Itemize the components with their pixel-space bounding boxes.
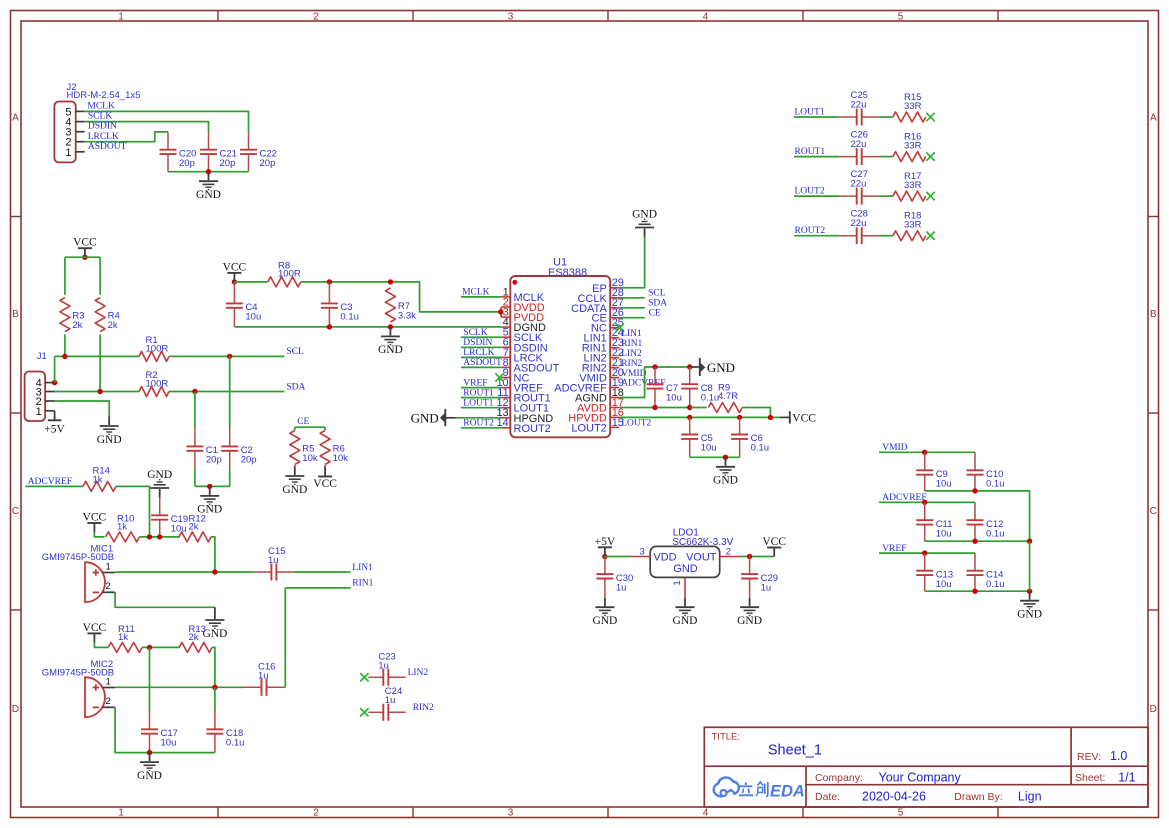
- wire: [879, 116, 893, 118]
- wire: [739, 556, 774, 558]
- svg-text:0.1u: 0.1u: [986, 579, 1005, 590]
- svg-text:10k: 10k: [333, 453, 349, 464]
- ground: [196, 172, 221, 201]
- svg-text:Lign: Lign: [1018, 789, 1042, 803]
- svg-text:1: 1: [118, 11, 124, 22]
- junction: [212, 569, 217, 574]
- svg-text:GND: GND: [713, 475, 738, 487]
- svg-text:RIN2: RIN2: [621, 359, 642, 369]
- junction: [388, 324, 393, 329]
- svg-text:GND: GND: [707, 360, 735, 375]
- wire: [974, 451, 976, 453]
- wire: [619, 367, 689, 398]
- wire: [879, 195, 893, 197]
- svg-text:0.1u: 0.1u: [226, 738, 245, 749]
- resistor R13 2k: [179, 624, 212, 652]
- junction at J1 pin 4: [52, 380, 57, 385]
- capacitor C18 0.1u: [206, 712, 244, 753]
- capacitor C3 0.1u: [321, 282, 359, 327]
- svg-text:GND: GND: [378, 344, 403, 356]
- junction: [1027, 539, 1032, 544]
- svg-text:Date:: Date:: [815, 791, 840, 803]
- lead R5 to ground: [294, 465, 296, 467]
- U1 pin 13 HPGND: [496, 407, 553, 425]
- svg-text:LIN1: LIN1: [352, 563, 373, 573]
- junction: [922, 500, 927, 505]
- svg-text:GND: GND: [97, 434, 122, 446]
- connector J1: [25, 351, 55, 421]
- wire: [55, 401, 110, 417]
- svg-text:VCC: VCC: [83, 622, 107, 634]
- svg-text:4: 4: [703, 807, 709, 818]
- svg-text:ES8388: ES8388: [548, 267, 587, 279]
- resistor R5 10k: [290, 431, 318, 465]
- wire: [149, 647, 151, 711]
- svg-text:2: 2: [106, 581, 111, 592]
- svg-text:1u: 1u: [258, 670, 269, 681]
- junction: [922, 450, 927, 455]
- svg-text:1: 1: [36, 406, 42, 418]
- svg-text:2: 2: [313, 807, 319, 818]
- svg-text:22u: 22u: [851, 218, 867, 229]
- U1 pin 4 DGND: [501, 317, 546, 335]
- wire: [295, 426, 325, 428]
- wire: [85, 111, 249, 131]
- capacitor C1 20p: [186, 429, 221, 469]
- svg-text:4: 4: [703, 11, 709, 22]
- wire: [284, 588, 286, 687]
- svg-text:1.0: 1.0: [1110, 749, 1127, 763]
- capacitor C25 22u: [839, 90, 879, 126]
- wire: [294, 571, 351, 573]
- svg-text:RIN2: RIN2: [413, 703, 434, 713]
- wire: [605, 556, 630, 558]
- svg-text:LIN2: LIN2: [621, 349, 642, 359]
- svg-text:VCC: VCC: [83, 512, 107, 524]
- junction: [687, 364, 692, 369]
- wire: [169, 355, 284, 357]
- power flag VCC: [83, 622, 107, 643]
- junction: [972, 539, 977, 544]
- junction: [212, 685, 217, 690]
- capacitor C5 10u: [681, 417, 716, 457]
- wire: [229, 469, 231, 487]
- svg-text:EDA: EDA: [770, 783, 805, 801]
- svg-text:GND: GND: [202, 628, 227, 640]
- capacitor C26 22u: [839, 130, 879, 166]
- svg-text:Sheet_1: Sheet_1: [768, 743, 822, 759]
- capacitor C4 10u: [226, 282, 261, 327]
- svg-text:ROUT2: ROUT2: [514, 423, 551, 435]
- svg-text:VCC: VCC: [792, 413, 816, 425]
- U1 pin 18 AGND: [575, 387, 624, 405]
- resistor R2 100R: [139, 370, 169, 397]
- svg-text:RIN1: RIN1: [621, 339, 642, 349]
- junction: [768, 415, 773, 420]
- ground: [282, 467, 307, 496]
- svg-text:LOUT2: LOUT2: [795, 187, 825, 197]
- junction: [192, 389, 197, 394]
- junction: [327, 324, 332, 329]
- connector J2 HDR-M-2.54_1x5: [54, 82, 140, 162]
- resistor R10 1k: [106, 514, 140, 542]
- U1 pin 24 LIN1: [584, 327, 624, 345]
- capacitor C9 10u: [916, 452, 951, 491]
- U1 pin 21 RIN2: [582, 357, 624, 375]
- ground (inverted): [632, 209, 657, 238]
- svg-text:+5V: +5V: [44, 423, 65, 435]
- svg-text:GND: GND: [737, 615, 762, 627]
- junction: [972, 589, 977, 594]
- LCEDA logo: [714, 777, 805, 800]
- capacitor C8 0.1u: [681, 367, 719, 408]
- svg-text:0.1u: 0.1u: [340, 312, 359, 323]
- svg-text:SCL: SCL: [648, 289, 666, 299]
- svg-text:ASDOUT: ASDOUT: [88, 142, 127, 152]
- U1 pin 26 CE: [592, 307, 624, 325]
- wire: [461, 387, 501, 389]
- wire: [169, 391, 284, 393]
- svg-text:5: 5: [898, 11, 904, 22]
- junction: [97, 389, 102, 394]
- resistor R14 1k: [83, 465, 116, 491]
- wire: [142, 646, 180, 648]
- junction: [227, 354, 232, 359]
- svg-text:22u: 22u: [851, 100, 867, 111]
- svg-text:GND: GND: [147, 469, 172, 481]
- svg-text:2k: 2k: [72, 320, 82, 331]
- capacitor C24 1u: [368, 686, 405, 721]
- svg-text:EP: EP: [592, 283, 607, 295]
- svg-text:20p: 20p: [179, 158, 195, 169]
- power flag VCC: [83, 512, 107, 533]
- wire: [619, 297, 645, 299]
- svg-text:2k: 2k: [108, 320, 118, 331]
- capacitor C20 20p: [160, 132, 197, 172]
- wire: [794, 195, 839, 197]
- ground: [1017, 591, 1042, 620]
- U1 pin 25 NC: [591, 317, 624, 335]
- svg-text:1u: 1u: [378, 660, 389, 671]
- svg-text:4.7R: 4.7R: [718, 391, 738, 402]
- ground: [202, 611, 227, 640]
- svg-text:B: B: [12, 309, 19, 320]
- wire: [461, 427, 501, 429]
- U1 pin 12 LOUT1: [496, 397, 549, 415]
- svg-text:LIN2: LIN2: [408, 668, 429, 678]
- wire: [619, 317, 645, 319]
- svg-text:GND: GND: [632, 209, 657, 221]
- wire: [234, 326, 501, 328]
- wire: [99, 257, 101, 295]
- svg-text:GND: GND: [673, 615, 698, 627]
- wire: [301, 282, 500, 312]
- svg-text:SCLK: SCLK: [88, 112, 112, 122]
- wire: [99, 334, 101, 391]
- svg-text:GND: GND: [196, 189, 221, 201]
- svg-text:0.1u: 0.1u: [701, 392, 720, 403]
- svg-text:3: 3: [508, 807, 514, 818]
- svg-text:1u: 1u: [761, 582, 772, 593]
- svg-text:1: 1: [118, 807, 124, 818]
- svg-text:DSDIN: DSDIN: [88, 122, 117, 132]
- ground: [673, 598, 698, 627]
- wire: [212, 647, 215, 687]
- svg-text:VCC: VCC: [313, 478, 337, 490]
- resistor R16 33R: [893, 132, 926, 162]
- wire: [619, 416, 779, 418]
- wire: [1029, 541, 1031, 591]
- wire: [94, 532, 104, 537]
- svg-text:0.1u: 0.1u: [986, 528, 1005, 539]
- svg-text:1u: 1u: [385, 695, 396, 706]
- wire: [879, 156, 893, 158]
- wire: [324, 427, 326, 430]
- wire: [55, 391, 140, 393]
- svg-text:Your Company: Your Company: [879, 771, 962, 785]
- power flag VCC: [73, 237, 97, 258]
- wire: [794, 156, 839, 158]
- wire: [115, 686, 244, 688]
- svg-text:ROUT1: ROUT1: [795, 147, 826, 157]
- svg-text:10u: 10u: [161, 738, 177, 749]
- capacitor C12 0.1u: [967, 502, 1005, 541]
- wire: [925, 491, 1030, 541]
- ground: [378, 327, 403, 356]
- svg-text:Company:: Company:: [815, 772, 863, 784]
- resistor R17 33R: [893, 171, 926, 201]
- wire: [115, 707, 215, 752]
- svg-text:10u: 10u: [701, 443, 717, 454]
- junction at U1 pins 2/3: [498, 309, 503, 314]
- wire: [619, 307, 645, 309]
- U1 pin 20 VMID: [579, 367, 624, 385]
- wire: [65, 256, 100, 258]
- wire: [194, 469, 196, 487]
- power flag VCC: [762, 536, 786, 557]
- title block: [704, 727, 1148, 807]
- svg-text:3.3k: 3.3k: [398, 311, 416, 322]
- svg-text:GMI9745P-50DB: GMI9745P-50DB: [42, 552, 114, 563]
- junction: [82, 255, 87, 260]
- svg-text:1k: 1k: [117, 522, 127, 533]
- wire: [461, 346, 501, 348]
- svg-text:1: 1: [672, 580, 683, 585]
- svg-text:1k: 1k: [93, 474, 103, 485]
- svg-text:VMID: VMID: [621, 369, 646, 379]
- svg-text:GND: GND: [592, 615, 617, 627]
- junction: [206, 169, 211, 174]
- wire: [168, 171, 249, 173]
- U1 pin 1 MCLK: [501, 286, 545, 304]
- svg-text:LIN1: LIN1: [621, 329, 642, 339]
- wire: [195, 485, 230, 487]
- capacitor C15 1u: [254, 546, 294, 580]
- power flag VCC (right of R9): [780, 411, 817, 424]
- junction: [62, 354, 67, 359]
- wire: [691, 407, 707, 409]
- no-connect flag: [926, 232, 934, 240]
- wire: [284, 686, 285, 688]
- resistor R1 100R: [139, 335, 169, 362]
- junction: [327, 279, 332, 284]
- ground: [737, 598, 762, 627]
- svg-text:3: 3: [508, 11, 514, 22]
- resistor R7 3.3k: [385, 288, 416, 322]
- wire: [64, 257, 66, 295]
- capacitor C6 0.1u: [731, 417, 769, 457]
- junction: [652, 364, 657, 369]
- wire: [794, 235, 839, 237]
- power flag VCC (inverted): [313, 467, 337, 491]
- capacitor C23 1u: [368, 651, 405, 685]
- svg-text:10u: 10u: [171, 524, 187, 535]
- resistor R6 10k: [320, 431, 348, 465]
- U1 pin 29 EP: [592, 277, 624, 295]
- svg-text:A: A: [12, 113, 19, 124]
- U1 pin 22 LIN2: [584, 347, 624, 365]
- U1 pin 17 AVDD: [577, 397, 624, 415]
- ground: [592, 598, 617, 627]
- wire: [94, 642, 108, 647]
- svg-text:1: 1: [106, 561, 111, 572]
- svg-text:RIN1: RIN1: [352, 579, 373, 589]
- wire: [115, 571, 254, 573]
- capacitor C27 22u: [839, 169, 879, 205]
- svg-text:33R: 33R: [904, 220, 922, 231]
- svg-text:HDR-M-2.54_1x5: HDR-M-2.54_1x5: [67, 90, 141, 101]
- svg-text:VCC: VCC: [223, 261, 247, 273]
- junction: [157, 534, 162, 539]
- no-connect flag: [926, 192, 934, 200]
- wire: [234, 281, 267, 283]
- svg-text:GND: GND: [1017, 609, 1042, 621]
- junction: [723, 455, 728, 460]
- ground: [97, 417, 122, 446]
- svg-text:C: C: [12, 506, 19, 517]
- svg-text:+5V: +5V: [595, 536, 616, 548]
- svg-text:10u: 10u: [936, 579, 952, 590]
- wire: [294, 427, 296, 430]
- resistor R9 4.7R: [708, 383, 742, 413]
- resistor R18 33R: [893, 211, 926, 241]
- svg-text:VCC: VCC: [73, 237, 97, 249]
- svg-text:10u: 10u: [936, 528, 952, 539]
- svg-text:B: B: [1150, 309, 1157, 320]
- svg-text:VOUT: VOUT: [686, 551, 717, 563]
- U1 pin 6 DSDIN: [501, 337, 548, 355]
- svg-text:LOUT1: LOUT1: [795, 107, 825, 117]
- wire: [285, 587, 350, 589]
- svg-text:LRCLK: LRCLK: [88, 132, 119, 142]
- svg-text:ROUT2: ROUT2: [795, 226, 826, 236]
- junction pins 2-3: [500, 307, 502, 317]
- svg-text:0.1u: 0.1u: [751, 443, 770, 454]
- wire: [64, 334, 66, 356]
- lead C30 to ground: [604, 596, 606, 597]
- svg-text:100R: 100R: [278, 268, 301, 279]
- wire: [140, 536, 181, 538]
- capacitor C7 10u: [647, 367, 682, 408]
- capacitor C28 22u: [839, 209, 879, 245]
- junction: [207, 484, 212, 489]
- resistor R4 2k: [95, 298, 120, 332]
- wire: [461, 356, 501, 358]
- junction: [687, 405, 692, 410]
- capacitor C22 20p: [240, 132, 277, 172]
- svg-text:1: 1: [65, 147, 71, 159]
- svg-text:22u: 22u: [851, 139, 867, 150]
- svg-text:MCLK: MCLK: [87, 101, 115, 111]
- U1 pin 9 NC: [501, 367, 529, 385]
- IC U1 ES8388 body: [510, 256, 610, 437]
- lead C29 to ground: [749, 596, 751, 597]
- wire: [461, 296, 501, 298]
- ground (inverted): [147, 469, 172, 498]
- wire: [194, 392, 196, 429]
- capacitor C16 1u: [244, 661, 284, 695]
- wire: [461, 397, 501, 399]
- wire: [794, 116, 839, 118]
- capacitor C17 10u: [141, 712, 178, 753]
- wire: [116, 486, 150, 537]
- svg-text:Drawn By:: Drawn By:: [954, 791, 1002, 803]
- svg-text:33R: 33R: [904, 101, 922, 112]
- microphone MIC2 GMI9745P-50DB: [42, 659, 115, 717]
- ground: [713, 457, 738, 486]
- svg-text:10u: 10u: [666, 392, 682, 403]
- svg-text:1: 1: [106, 676, 111, 687]
- junction: [737, 415, 742, 420]
- svg-text:2: 2: [106, 696, 111, 707]
- svg-text:GND: GND: [411, 410, 439, 425]
- no-connect flag U1 pin 25: [616, 324, 624, 332]
- resistor R12 2k: [179, 514, 211, 542]
- capacitor C21 20p: [200, 132, 237, 172]
- U1 pin 23 RIN1: [582, 337, 624, 355]
- svg-text:TITLE:: TITLE:: [712, 732, 741, 743]
- wire: [85, 122, 209, 132]
- svg-text:20p: 20p: [220, 158, 236, 169]
- svg-text:LOUT2: LOUT2: [621, 419, 651, 429]
- U1 pin 16 HPVDD: [568, 407, 624, 425]
- U1 pin 8 ASDOUT: [501, 357, 559, 375]
- U1 pin 27 CDATA: [571, 297, 624, 315]
- wire: [229, 356, 231, 428]
- capacitor C10 0.1u: [967, 452, 1005, 491]
- resistor R8 100R: [268, 260, 301, 287]
- svg-text:10k: 10k: [302, 453, 318, 464]
- wire: [54, 356, 56, 382]
- ground: [197, 486, 222, 515]
- svg-text:D: D: [12, 704, 19, 715]
- no-connect flag: [926, 113, 934, 121]
- svg-text:CE: CE: [297, 417, 309, 427]
- junction: [388, 279, 393, 284]
- wire: [461, 407, 501, 409]
- svg-text:2020-04-26: 2020-04-26: [862, 789, 926, 803]
- svg-text:GND: GND: [673, 563, 698, 575]
- junction: [972, 488, 977, 493]
- svg-text:20p: 20p: [260, 158, 276, 169]
- resistor R11 1k: [108, 624, 142, 652]
- wire: [879, 501, 975, 503]
- ground flag at AGND net: [690, 358, 735, 376]
- wire: [925, 590, 1030, 592]
- svg-text:VCC: VCC: [762, 536, 786, 548]
- svg-text:J1: J1: [37, 351, 47, 362]
- svg-text:CE: CE: [649, 309, 661, 319]
